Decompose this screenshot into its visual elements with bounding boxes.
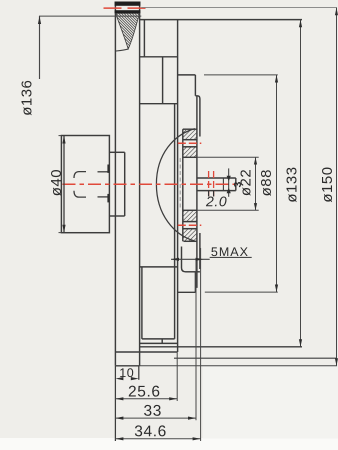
svg-text:ø136: ø136 xyxy=(18,80,35,116)
flange bolt hole center bottom xyxy=(178,224,202,226)
boss collar right xyxy=(124,152,126,216)
hub right wall xyxy=(177,20,179,352)
body step corner to x199.9 xyxy=(195,96,200,137)
rim wedge lower outline xyxy=(116,49,129,51)
hub inner wall x174.6 xyxy=(174,104,176,339)
boss hidden bore dash bottom-right xyxy=(98,196,109,198)
arrow ø40 bottom xyxy=(62,225,65,233)
line y352 xyxy=(115,351,177,353)
hub inner divider x161.5 xyxy=(162,57,164,104)
dimension 34.6 line xyxy=(115,438,200,440)
dimension ø133 line xyxy=(300,20,302,347)
bottom white strip xyxy=(0,438,338,450)
arrow ø88 top xyxy=(275,75,278,83)
svg-text:ø133: ø133 xyxy=(284,166,301,202)
hub inner box bottom xyxy=(142,338,175,340)
hub slab divider xyxy=(161,339,163,344)
dimension ø136 extension line xyxy=(39,15,141,17)
svg-text:ø88: ø88 xyxy=(258,169,275,196)
boss hidden bore dash top-right xyxy=(98,171,109,173)
flange bottom edge xyxy=(184,240,197,242)
arrow ø133 bottom xyxy=(299,339,302,347)
boss collar top xyxy=(109,151,124,153)
svg-text:25.6: 25.6 xyxy=(128,383,161,400)
lighter lower-right panel xyxy=(203,367,338,439)
arrow 5MAX right xyxy=(196,258,204,261)
shaft step xyxy=(222,178,224,191)
body step top horizontal xyxy=(178,74,196,76)
hub inner wall x141.9 xyxy=(141,268,143,339)
flange bore top edge (ø22) xyxy=(183,156,197,158)
svg-text:34.6: 34.6 xyxy=(134,423,167,440)
svg-text:33: 33 xyxy=(143,403,161,420)
boss hidden bore tick bottom-right xyxy=(107,194,109,203)
svg-text:2.0: 2.0 xyxy=(205,193,227,209)
dimension ø22 extension lines xyxy=(197,156,259,158)
svg-text:ø40: ø40 xyxy=(48,169,65,196)
arrows dim 33 xyxy=(115,417,123,420)
boss collar bottom xyxy=(109,215,124,217)
dimension ø136 line xyxy=(39,16,41,79)
boss hidden bore bracket bottom-left xyxy=(74,191,86,197)
hub divider y56.8 xyxy=(140,56,178,58)
line y358 xyxy=(174,357,337,359)
flange bolt hole center top xyxy=(178,142,202,144)
2.0 dim vertical feature line xyxy=(228,168,230,196)
svg-text:10: 10 xyxy=(119,366,134,380)
rim left edge xyxy=(114,2,116,366)
body step bottom vertical xyxy=(194,272,196,293)
shaft top line xyxy=(197,177,236,179)
body step top vertical xyxy=(194,75,196,96)
svg-text:3: 3 xyxy=(232,181,244,187)
arrow ø150 top xyxy=(335,8,338,16)
arrow ø88 bottom xyxy=(275,285,278,293)
arrow ø136 top xyxy=(38,16,41,24)
hub inner vertical x144.4 top box xyxy=(143,20,145,57)
arrow ø150 bottom xyxy=(335,358,338,366)
5MAX underline xyxy=(210,256,252,258)
flange hatch top block xyxy=(183,130,196,139)
dimension ø150 extension top xyxy=(141,7,337,9)
dimension 25.6 line xyxy=(115,398,177,400)
hub slab line y340.4 xyxy=(140,342,178,344)
flange bore bottom edge (ø22) xyxy=(183,209,197,211)
dimension ø22 line xyxy=(255,157,257,210)
arrow ø22 bottom xyxy=(254,203,257,210)
2.0 ext ticks below shaft xyxy=(208,191,210,197)
body bottom edge xyxy=(140,346,302,348)
arrow ø22 top xyxy=(254,157,257,164)
hub divider y266.9 xyxy=(140,266,178,268)
shaft groove center line right xyxy=(213,171,215,196)
hub divider y103.7 xyxy=(140,103,178,105)
arrows dim 25.6 xyxy=(115,397,123,400)
boss hidden bore bracket top-left xyxy=(74,172,86,178)
svg-text:5MAX: 5MAX xyxy=(211,245,249,259)
arrow ø40 top xyxy=(62,136,65,144)
arrows on shaft feature xyxy=(227,176,231,182)
dimension ø150 extension bottom xyxy=(140,365,337,367)
bell curve xyxy=(156,129,194,241)
shaft groove center line left xyxy=(208,171,210,196)
flange left edge xyxy=(182,129,184,241)
body step bottom horizontal y271.8 xyxy=(186,271,200,273)
flange hatch bottom block xyxy=(183,211,196,221)
dimension ø88 extension lines xyxy=(204,74,278,76)
5MAX leader xyxy=(171,258,210,260)
arrows dim 10 xyxy=(115,377,123,380)
flange right face xyxy=(196,96,198,288)
rim top band 2 xyxy=(115,10,141,13)
arrow ø133 top xyxy=(299,20,302,28)
boss rectangle xyxy=(61,136,109,233)
dimension 10 extension lines xyxy=(114,366,116,441)
dimension 25.6 extension xyxy=(176,353,178,402)
body hook below flange xyxy=(182,247,186,272)
hub column top edge / body top edge xyxy=(140,19,302,21)
shaft bottom line xyxy=(197,190,236,192)
svg-text:ø150: ø150 xyxy=(319,166,336,202)
boss hidden bore tick top-right xyxy=(107,165,109,173)
hidden line flange bore xyxy=(179,158,181,210)
dimension ø40 line xyxy=(63,136,65,233)
dimension 33 line xyxy=(115,417,196,419)
arrow 5MAX left xyxy=(171,258,179,261)
flange hole edge lines top xyxy=(183,139,197,141)
groove center line top xyxy=(104,7,146,9)
rim bottom edge xyxy=(115,365,139,367)
dimension ø150 line xyxy=(336,8,338,366)
dimension ø40 ext stubs xyxy=(59,135,62,137)
flange top edge xyxy=(183,128,197,130)
arrows dim 34.6 xyxy=(115,437,123,440)
dimension 33 extension xyxy=(195,260,197,420)
dimension ø88 line xyxy=(276,75,278,292)
body step bottom horizontal y292.3 xyxy=(178,291,196,293)
shaft tip xyxy=(235,178,237,191)
flange right back face lower xyxy=(199,233,201,269)
main horizontal center line xyxy=(63,183,236,185)
dimension 34.6 extension xyxy=(200,248,202,441)
flange hole edge lines bottom xyxy=(183,221,197,223)
rim right edge xyxy=(139,2,141,366)
rim top band 1 xyxy=(115,2,141,6)
rim hatch wedge xyxy=(116,13,140,49)
